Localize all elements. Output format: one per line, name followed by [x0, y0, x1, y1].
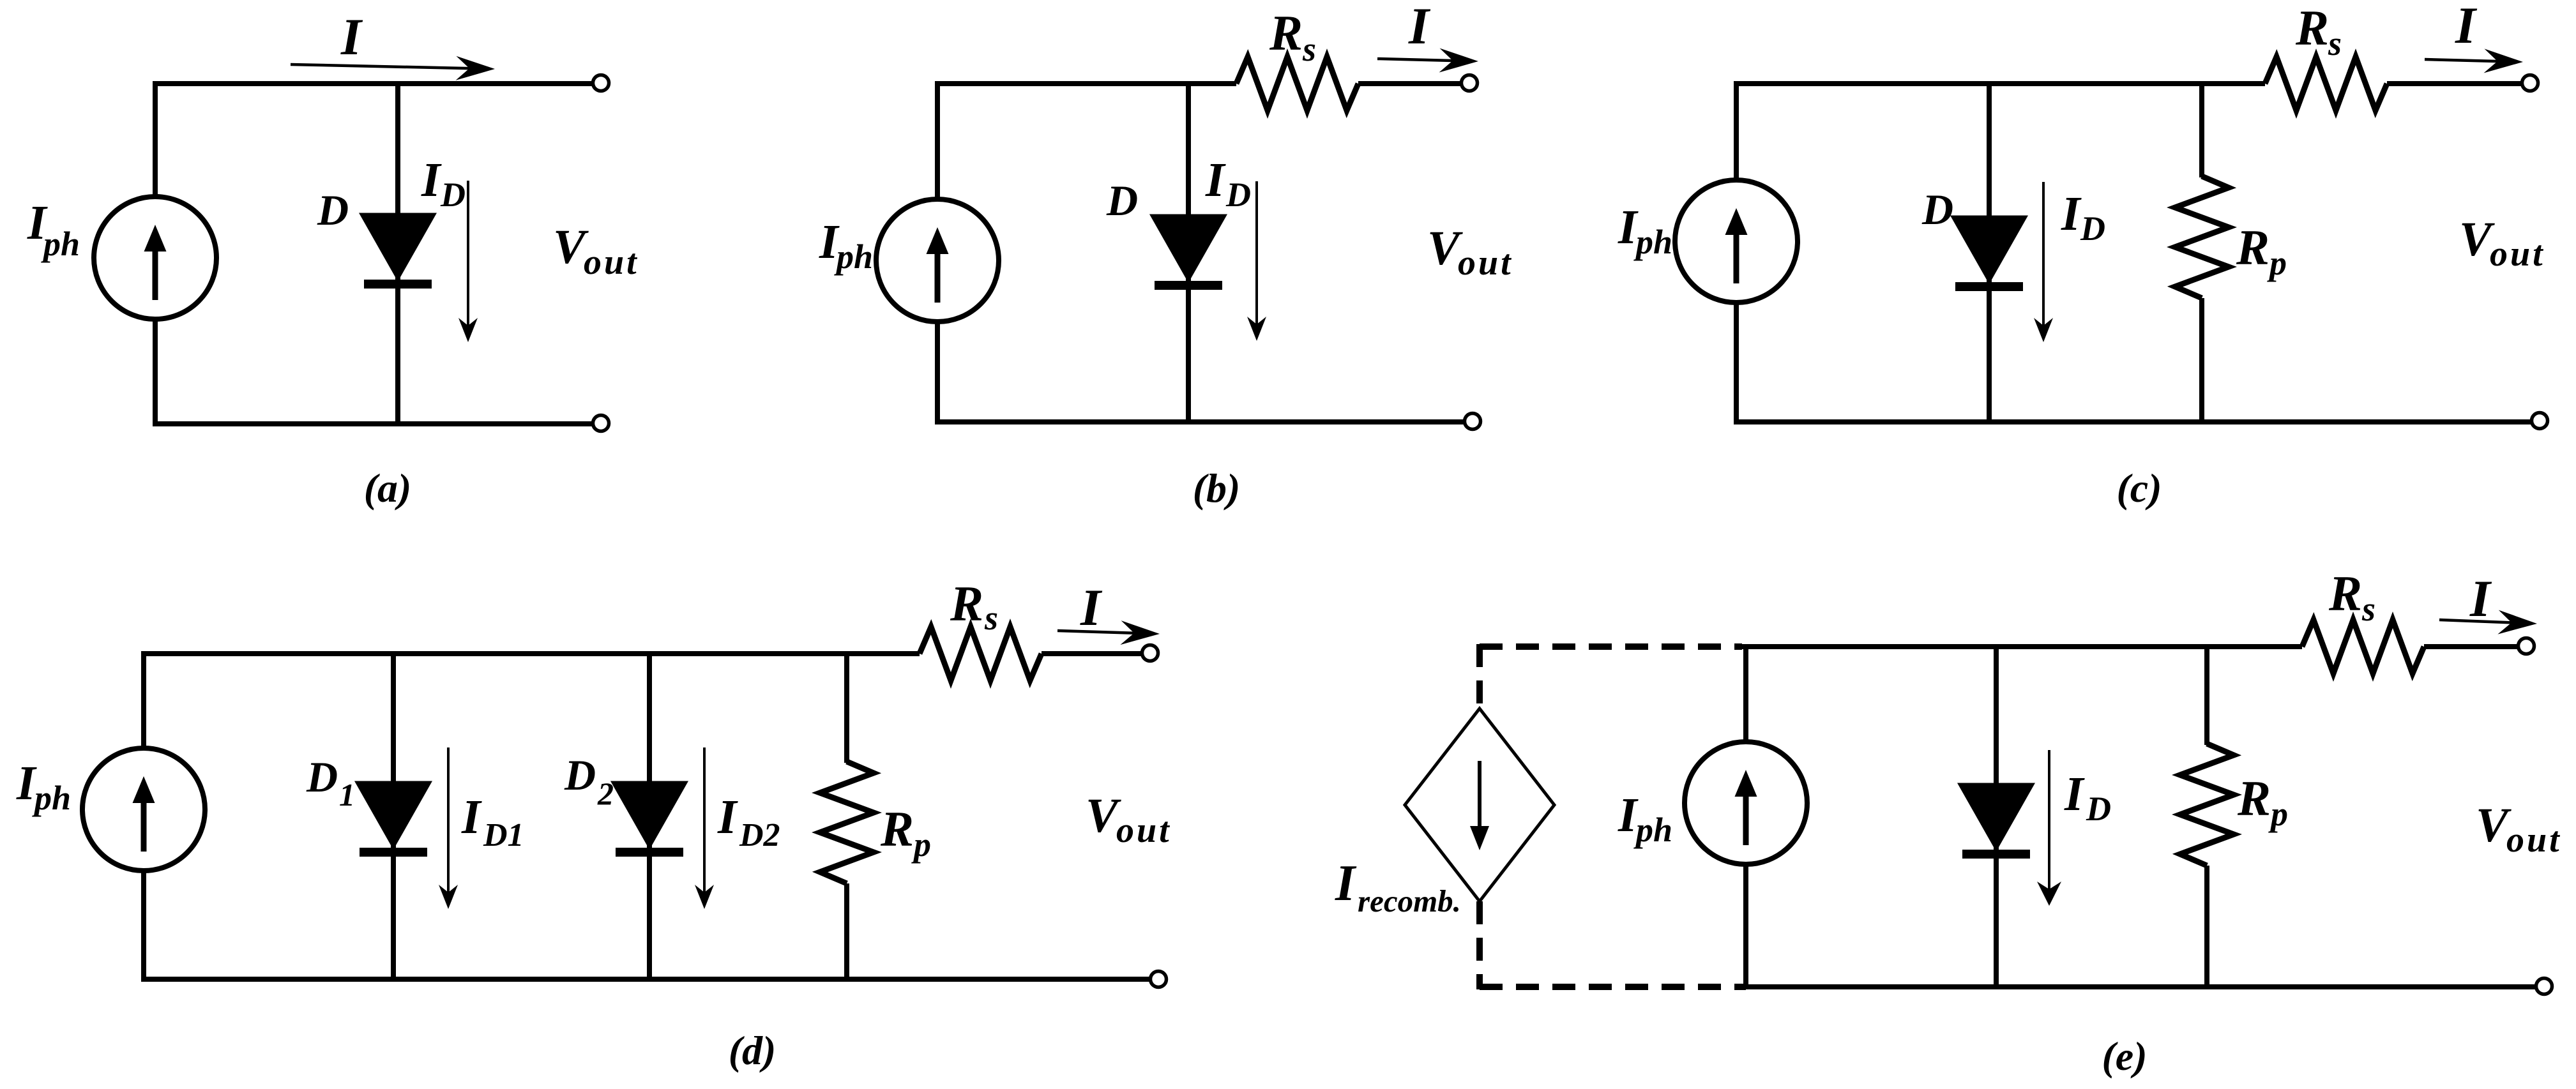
wire c top rail [1736, 81, 2265, 86]
svg-text:out: out [584, 243, 639, 282]
wire a left lower [153, 318, 158, 426]
label ID (e) [2064, 767, 2111, 828]
wire b bottom rail [937, 419, 1466, 424]
label ID (c) [2061, 187, 2105, 248]
wire b left lower [935, 320, 940, 424]
label I (b) [1408, 0, 1431, 55]
current source Iph (a) [94, 197, 216, 319]
wire a bottom rail [155, 421, 594, 426]
svg-text:D: D [1106, 176, 1138, 225]
svg-text:R: R [2328, 566, 2362, 621]
label Rs (b) [1269, 5, 1316, 68]
label Iph (d) [16, 756, 71, 817]
wire e diode branch [1994, 647, 1999, 987]
terminal a bottom [593, 416, 609, 432]
svg-text:ph: ph [1633, 223, 1672, 261]
svg-text:D2: D2 [739, 817, 780, 853]
wire e bottom rail [1746, 984, 2536, 989]
svg-text:D: D [2080, 209, 2105, 248]
svg-text:p: p [2267, 244, 2287, 282]
svg-text:s: s [2361, 590, 2375, 628]
current arrow I (b) [1377, 49, 1478, 73]
label Irecomb (e) [1335, 855, 1461, 919]
terminal d bottom [1151, 972, 1167, 988]
svg-text:D: D [564, 751, 596, 799]
svg-text:ph: ph [32, 779, 71, 817]
label Vout (c) [2459, 213, 2545, 274]
wire d diode1 branch [391, 654, 396, 979]
svg-text:I: I [1080, 578, 1103, 636]
label Vout (d) [1086, 789, 1172, 850]
wire c Rp lower [2199, 298, 2204, 422]
resistor Rp (e) [2180, 744, 2234, 866]
svg-text:s: s [2328, 24, 2342, 63]
label D (a) [317, 186, 349, 234]
wire b diode branch [1186, 84, 1191, 422]
svg-text:D1: D1 [483, 817, 524, 853]
wire d bottom rail [144, 977, 1151, 982]
label Iph (b) [819, 215, 873, 276]
svg-text:(d): (d) [729, 1028, 777, 1073]
label ID2 (d) [717, 790, 780, 853]
label Iph (c) [1618, 200, 1672, 261]
label D (b) [1106, 176, 1138, 225]
label I (d) [1080, 578, 1103, 636]
resistor Rp (c) [2175, 176, 2229, 298]
svg-text:ph: ph [41, 225, 80, 263]
wire c top right [2387, 81, 2523, 86]
wire d top right [1042, 651, 1143, 656]
svg-text:ph: ph [1633, 811, 1672, 849]
svg-text:D: D [1921, 185, 1953, 234]
label Rs (d) [950, 576, 998, 637]
svg-text:I: I [1205, 153, 1226, 207]
wire c left upper [1734, 81, 1739, 181]
resistor Rs (d) [920, 627, 1042, 680]
svg-text:2: 2 [597, 776, 614, 811]
wire d Rp lower [844, 883, 849, 979]
terminal d top [1142, 645, 1158, 661]
svg-text:R: R [950, 576, 983, 631]
diode D (b) [1153, 216, 1224, 290]
svg-text:(e): (e) [2102, 1033, 2147, 1079]
svg-text:out: out [1458, 243, 1513, 283]
terminal e bottom [2536, 979, 2552, 995]
svg-text:D: D [2086, 790, 2111, 828]
diode current arrow ID (b) [1247, 181, 1266, 341]
dashed wire e bottom [1480, 984, 1746, 990]
svg-text:D: D [440, 176, 466, 214]
wire d left upper [141, 651, 146, 749]
svg-text:out: out [1116, 811, 1172, 850]
resistor Rs (c) [2265, 57, 2387, 110]
diode current arrow ID (e) [2037, 750, 2061, 906]
svg-text:recomb.: recomb. [1358, 883, 1461, 919]
label Vout (b) [1427, 222, 1513, 283]
wire e top rail [1742, 644, 2302, 649]
label I (a) [340, 8, 363, 66]
wire a left upper [153, 81, 158, 198]
svg-text:R: R [880, 801, 914, 857]
svg-text:ph: ph [834, 237, 873, 276]
svg-text:I: I [2061, 187, 2082, 241]
wire d Rp upper [844, 654, 849, 763]
svg-text:D: D [306, 753, 338, 801]
wire b top rail [937, 81, 1236, 86]
label D2 (d) [564, 751, 614, 811]
wire c bottom rail [1736, 419, 2533, 424]
label Rp (e) [2237, 770, 2288, 833]
svg-text:D: D [1225, 176, 1251, 214]
current arrow I (c) [2425, 49, 2523, 73]
dashed wire e top [1480, 643, 1742, 650]
terminal a top [593, 75, 609, 91]
label D (c) [1921, 185, 1953, 234]
label Iph (e) [1618, 788, 1672, 849]
svg-text:I: I [2455, 0, 2478, 54]
svg-text:s: s [984, 599, 998, 637]
svg-text:(b): (b) [1193, 465, 1241, 511]
svg-text:R: R [2236, 220, 2269, 275]
wire d left lower [141, 869, 146, 982]
label Vout (a) [553, 220, 639, 282]
diode current arrow ID (c) [2034, 182, 2053, 342]
resistor Rs (e) [2302, 620, 2424, 673]
label I (e) [2469, 569, 2492, 627]
wire c diode branch [1987, 84, 1992, 422]
svg-text:out: out [2506, 820, 2562, 860]
wire c Rp upper [2199, 84, 2204, 177]
diode current arrow ID1 (d) [439, 747, 458, 909]
terminal c bottom [2532, 413, 2548, 429]
current arrow I (a) [291, 56, 495, 80]
label Rs (e) [2328, 566, 2375, 628]
label D1 (d) [306, 753, 355, 813]
wire e source upper [1743, 644, 1748, 743]
svg-text:I: I [2064, 767, 2085, 821]
svg-text:I: I [421, 153, 442, 207]
wire d diode2 branch [647, 654, 652, 979]
diode D (a) [363, 215, 433, 289]
current source Iph (c) [1675, 180, 1798, 303]
current source Iph (e) [1685, 742, 1807, 864]
terminal b bottom [1465, 414, 1481, 430]
svg-text:I: I [2469, 569, 2492, 627]
label Rp (c) [2236, 220, 2287, 282]
label ID1 (d) [461, 790, 524, 853]
svg-text:R: R [1269, 5, 1303, 61]
terminal e top [2519, 638, 2534, 654]
label I (c) [2455, 0, 2478, 54]
diode D (c) [1954, 218, 2024, 291]
diode current arrow ID (a) [458, 181, 478, 342]
wire d top rail [144, 651, 920, 656]
svg-text:p: p [2268, 795, 2288, 833]
wire b top right [1358, 81, 1462, 86]
svg-text:out: out [2490, 234, 2545, 274]
diode D1 (d) [358, 783, 428, 857]
svg-text:I: I [1335, 855, 1357, 912]
svg-text:(c): (c) [2116, 465, 2162, 511]
wire a diode branch [395, 84, 400, 424]
wire e source lower [1743, 863, 1748, 989]
svg-text:D: D [317, 186, 349, 234]
current arrow I (e) [2439, 610, 2537, 635]
wire b left upper [935, 81, 940, 200]
dashed wire e left upper [1476, 644, 1483, 710]
label Iph (a) [27, 196, 80, 263]
svg-text:I: I [340, 8, 363, 66]
svg-text:R: R [2295, 0, 2329, 56]
dashed wire e left lower [1476, 901, 1483, 989]
svg-text:I: I [461, 790, 482, 844]
current source Iph (d) [82, 748, 205, 871]
resistor Rs (b) [1236, 57, 1358, 110]
controlled source Irecomb diamond [1405, 709, 1554, 901]
label Rp (d) [880, 801, 931, 864]
wire a top rail [155, 81, 594, 86]
resistor Rp (d) [820, 762, 874, 883]
svg-text:s: s [1302, 30, 1316, 68]
current arrow I (d) [1057, 620, 1160, 645]
wire e Rp upper [2204, 647, 2209, 745]
svg-text:I: I [1408, 0, 1431, 55]
label ID (a) [421, 153, 466, 214]
svg-text:R: R [2237, 770, 2271, 826]
diode D (e) [1961, 785, 2031, 859]
wire e Rp lower [2204, 866, 2209, 987]
terminal b top [1462, 75, 1478, 91]
svg-text:(a): (a) [364, 465, 412, 511]
wire c left lower [1734, 301, 1739, 424]
terminal c top [2522, 75, 2538, 91]
svg-text:I: I [717, 790, 738, 844]
label ID (b) [1205, 153, 1251, 214]
label Vout (e) [2476, 799, 2562, 860]
current source Iph (b) [876, 199, 999, 322]
svg-text:p: p [911, 825, 931, 864]
diode D2 (d) [614, 783, 685, 857]
svg-text:1: 1 [339, 777, 355, 813]
diode current arrow ID2 (d) [695, 747, 714, 909]
label Rs (c) [2295, 0, 2342, 63]
wire e top right [2424, 644, 2519, 649]
